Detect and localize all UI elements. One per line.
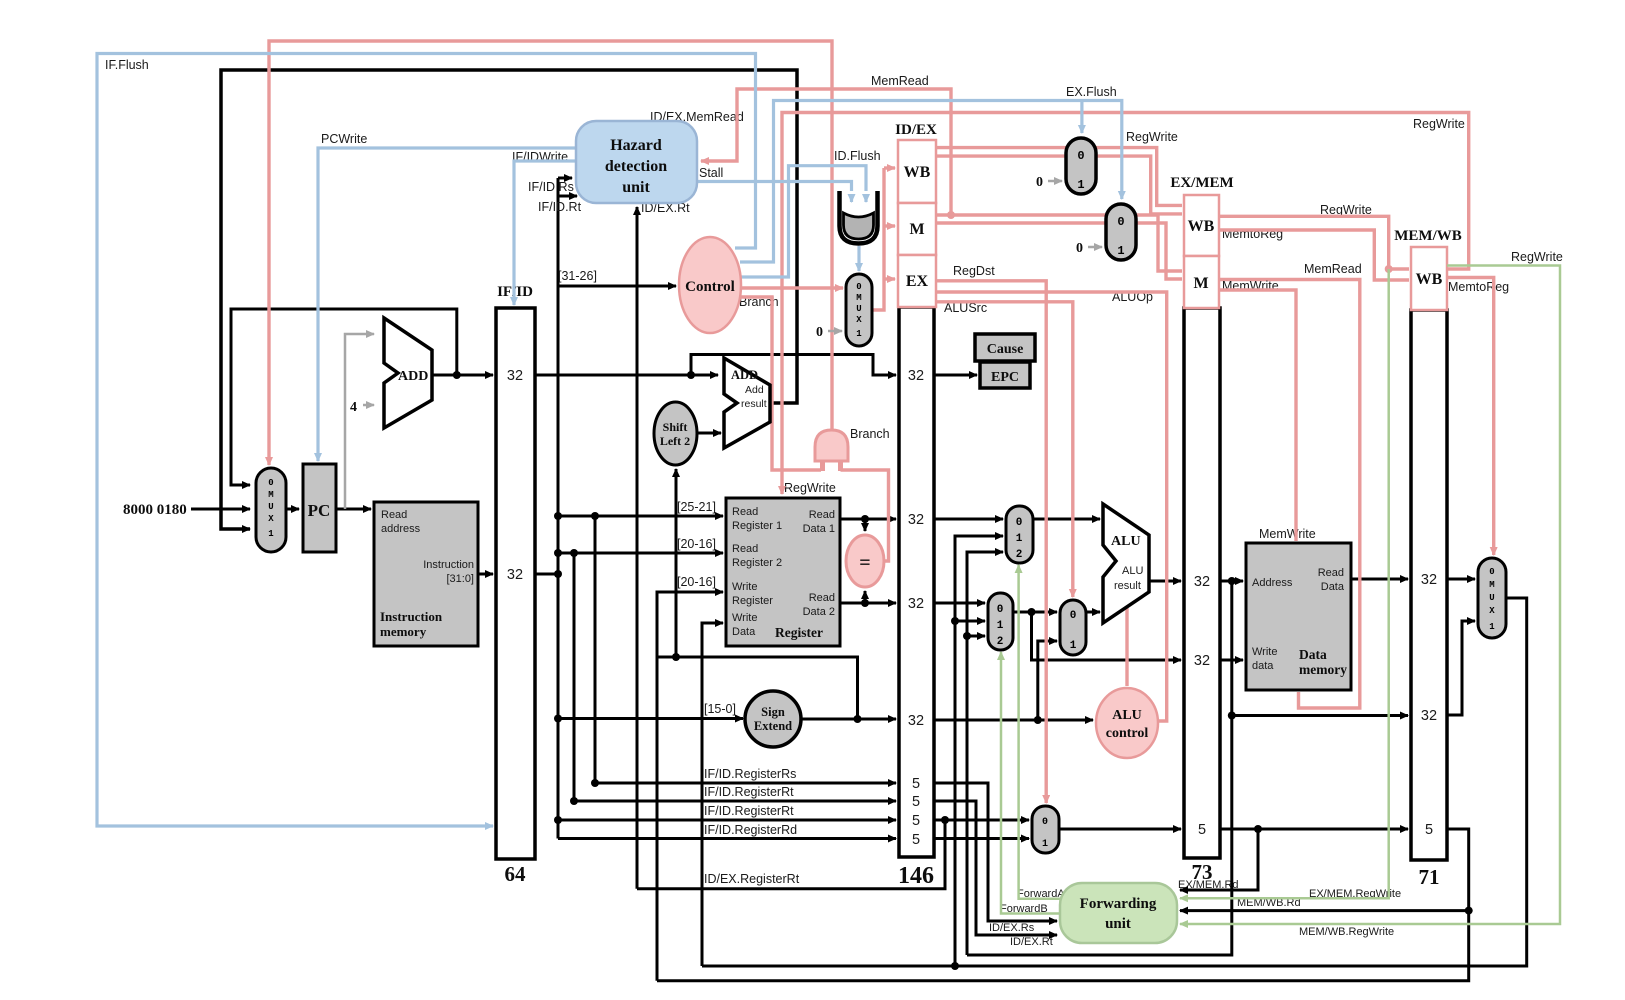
pipeline register ID/EX control boxes WB/M/EX [895, 122, 937, 307]
wire instruction [25-21] to read register 1 [558, 500, 723, 516]
wire IF/ID.Rs stub into hazard detection unit [528, 178, 574, 194]
svg-text:U: U [856, 304, 861, 314]
svg-text:32: 32 [908, 713, 924, 729]
wire ID/EX PC+4 to EPC [934, 374, 977, 377]
svg-text:Forwarding: Forwarding [1080, 896, 1157, 912]
node EX/MEM.Rd junction [1254, 825, 1262, 833]
svg-text:Shift: Shift [663, 420, 688, 434]
pipeline register IF/ID [496, 284, 535, 886]
svg-text:0: 0 [1042, 817, 1048, 828]
svg-text:Write: Write [1252, 646, 1277, 658]
wire EX/MEM ALU result to data memory address [1220, 580, 1243, 583]
svg-text:8000 0180: 8000 0180 [123, 502, 187, 518]
svg-text:0: 0 [997, 604, 1004, 616]
svg-text:0: 0 [1070, 610, 1077, 622]
ALUSrc mux 0/1 [1060, 600, 1086, 655]
svg-text:ALU: ALU [1112, 708, 1142, 723]
wire instruction [20-16] to read register 2 [558, 537, 723, 553]
svg-text:EPC: EPC [991, 370, 1019, 385]
svg-text:Data: Data [1299, 647, 1327, 662]
wire ForwardB from forwarding unit to ALU B mux (green) [1000, 652, 1060, 915]
node sign extend output junction [854, 715, 862, 723]
svg-text:1: 1 [268, 529, 274, 539]
node immediate junction [1034, 716, 1042, 724]
svg-text:5: 5 [912, 832, 920, 848]
svg-text:Read: Read [1318, 567, 1344, 579]
svg-text:memory: memory [380, 624, 427, 639]
wire MEM forward riser to ALU A mux input 2 [967, 552, 1003, 955]
cause register [975, 334, 1035, 361]
equality comparator [846, 535, 884, 587]
wire control into ID/EX EX box (pink) [884, 277, 895, 280]
hazard detection unit [576, 121, 697, 203]
svg-text:M: M [1489, 580, 1494, 590]
svg-text:64: 64 [505, 862, 527, 886]
svg-text:Register: Register [732, 595, 773, 607]
wire MEM forward row from EX/MEM ALU result [967, 581, 1232, 955]
wire instruction [15-0] to sign extend [558, 702, 743, 719]
svg-text:M: M [268, 490, 273, 500]
wire constant 4 into ADD (gray) [350, 400, 374, 415]
instruction memory [374, 502, 478, 646]
svg-text:Read: Read [809, 509, 835, 521]
svg-text:1: 1 [1070, 640, 1077, 652]
svg-text:[20-16]: [20-16] [677, 575, 716, 589]
svg-text:Instruction: Instruction [380, 609, 443, 624]
svg-text:Instruction: Instruction [423, 559, 474, 571]
svg-text:32: 32 [1421, 572, 1437, 588]
pipeline register MEM/WB (black bar) [1411, 310, 1447, 889]
svg-text:MemtoReg: MemtoReg [1448, 280, 1509, 294]
svg-text:U: U [268, 502, 273, 512]
svg-text:32: 32 [507, 567, 523, 583]
wire bubble mux output to ID/EX control boxes (pink) [872, 168, 884, 310]
svg-text:X: X [268, 514, 274, 524]
wire EX/MEM.RegWrite to forwarding unit (green) [1180, 269, 1401, 900]
wire ALUSrc to ALUSrc mux select (pink) [936, 301, 1073, 597]
svg-text:MEM/WB.RegWrite: MEM/WB.RegWrite [1299, 926, 1394, 938]
svg-text:[15-0]: [15-0] [704, 702, 736, 716]
node Rt field junction [570, 549, 578, 557]
svg-text:0: 0 [268, 478, 273, 488]
wire data memory read data to MEM/WB [1351, 578, 1408, 581]
svg-text:ID/EX.Rt: ID/EX.Rt [1010, 936, 1053, 948]
wire sign extend output into ID/EX [800, 718, 896, 721]
wire 8000 0180 constant into PC mux [123, 502, 250, 518]
svg-text:1: 1 [1016, 533, 1023, 545]
wire PCWrite from hazard detection unit to PC (blue) [318, 132, 576, 461]
wire IF.Flush from Control around to IF/ID (blue) [97, 54, 756, 827]
wire immediate riser to ALUSrc mux input 1 [1038, 641, 1057, 720]
wire WB forward tap to ALU B mux input 1 [955, 620, 985, 623]
wire IF/ID.RegisterRs into ID/EX [595, 516, 896, 783]
svg-text:data: data [1252, 660, 1274, 672]
svg-text:71: 71 [1419, 865, 1440, 889]
svg-text:Register 1: Register 1 [732, 520, 782, 532]
wire write data loop into registers [702, 623, 723, 966]
svg-text:1: 1 [856, 329, 862, 339]
node MemRead tap junction (pink) [947, 211, 955, 219]
svg-text:0: 0 [1016, 517, 1023, 529]
svg-text:MemWrite: MemWrite [1259, 527, 1316, 541]
wire PC+4 feedback to PC mux input 0 [231, 309, 457, 485]
node read data 1 junction [861, 515, 869, 523]
pipeline register ID/EX (black bar) [898, 307, 934, 889]
svg-text:Write: Write [732, 581, 757, 593]
wire EX/MEM write data to data memory [1220, 659, 1243, 662]
wire control into ID/EX M box (pink) [884, 224, 895, 227]
wire write register number loop into registers [657, 575, 723, 981]
svg-text:32: 32 [908, 596, 924, 612]
node MEM/WB.Rd junction [1465, 907, 1473, 915]
svg-text:X: X [1489, 606, 1495, 616]
svg-text:EX/MEM: EX/MEM [1170, 175, 1233, 191]
svg-text:Register: Register [775, 625, 823, 640]
wire EX/MEM.Rd down to forwarding unit [1178, 829, 1258, 891]
svg-text:IF/ID.RegisterRt: IF/ID.RegisterRt [704, 785, 794, 799]
svg-text:4: 4 [350, 400, 357, 415]
wire Control bundle to bubble mux (pink) [741, 286, 843, 289]
wire control into ID/EX WB box (pink) [884, 166, 895, 169]
svg-text:Register 2: Register 2 [732, 557, 782, 569]
svg-text:RegWrite: RegWrite [1511, 250, 1563, 264]
svg-text:ALU: ALU [1122, 565, 1143, 577]
sign extend [745, 691, 801, 747]
svg-text:RegDst: RegDst [953, 264, 995, 278]
wire ID/EX.Rt to forwarding unit [934, 801, 1057, 948]
control unit [679, 237, 741, 333]
wire MEM forward tap to ALU B mux input 2 [967, 635, 985, 638]
svg-text:Read: Read [732, 506, 758, 518]
wire IF/ID instruction output to instruction bus [535, 573, 558, 576]
node Rs field junction [591, 512, 599, 520]
svg-text:ID/EX.RegisterRt: ID/EX.RegisterRt [704, 872, 800, 886]
wire ID/EX.Rt vertical up to hazard detection unit [637, 201, 690, 889]
wire instruction memory output to IF/ID [478, 573, 493, 576]
svg-text:result: result [1114, 580, 1141, 592]
wire IF/ID.RegisterRd into ID/EX [558, 823, 896, 839]
svg-text:2: 2 [1016, 549, 1023, 561]
writeback mux [1478, 558, 1506, 638]
wire equality comparator output to AND gate (pink) [841, 470, 889, 561]
svg-text:ADD: ADD [731, 368, 758, 382]
wire read data 2 into ID/EX [840, 602, 896, 605]
svg-text:0: 0 [1036, 175, 1043, 190]
first flush mux 0/1 [1066, 138, 1096, 194]
wire Branch from Control to AND gate (pink) [739, 295, 821, 470]
svg-text:[31:0]: [31:0] [446, 573, 474, 585]
svg-text:32: 32 [507, 368, 523, 384]
svg-text:RegWrite: RegWrite [1413, 117, 1465, 131]
svg-text:unit: unit [1105, 916, 1131, 932]
wire MEM/WB.RegWrite to forwarding unit (green) [1180, 250, 1563, 938]
wire PC to instruction memory read address [336, 508, 371, 511]
node read data 2 junction [861, 599, 869, 607]
wire ID/EX WB RegWrite to EX/MEM WB (pink) [936, 148, 1182, 206]
wire writeback mux output loop to write data [702, 598, 1527, 966]
ADD branch target adder [724, 358, 770, 448]
svg-text:Control: Control [685, 279, 735, 295]
wire constant 0 into bubble mux (gray) [816, 325, 842, 340]
node ID/EX Rt output junction [941, 816, 949, 824]
svg-text:IF/ID Rs: IF/ID Rs [528, 180, 574, 194]
svg-text:1: 1 [1077, 178, 1084, 192]
svg-text:Read: Read [809, 592, 835, 604]
svg-text:0: 0 [856, 282, 861, 292]
wire shift left 2 tap from sign extend output [657, 657, 858, 719]
wire EX/MEM.Rd output to MEM/WB [1220, 828, 1408, 831]
wire read data 2 tap into equality comparator [864, 591, 867, 603]
EPC register [980, 362, 1030, 388]
wire IF/ID.RegisterRt into ID/EX [574, 553, 896, 801]
wire branch target loop from ADD result to PC mux input 2 [221, 70, 797, 529]
wire RegDst to destination mux select (pink) [936, 264, 1046, 803]
wire ID/EX M MemRead to EX/MEM M (pink) [936, 215, 1182, 271]
svg-text:ID/EX.Rs: ID/EX.Rs [989, 922, 1035, 934]
svg-text:Write: Write [732, 612, 757, 624]
svg-text:32: 32 [1421, 708, 1437, 724]
wire constant 0 into second flush mux (gray) [1076, 241, 1102, 256]
svg-text:Extend: Extend [754, 719, 792, 733]
wire MEM/WB.Rd output loop to write register [657, 829, 1469, 981]
node PC+4 bypass junction [687, 371, 695, 379]
shift left 2 [654, 402, 697, 465]
wire IF/ID 32 (PC+4) to branch ADD [535, 374, 718, 377]
wire instruction [31-26] to Control [558, 269, 676, 286]
svg-text:Address: Address [1252, 577, 1293, 589]
svg-text:Read: Read [381, 509, 407, 521]
svg-text:M: M [1193, 275, 1208, 292]
wire ID.Flush from Control to bubble funnel (blue) [738, 149, 881, 277]
svg-text:U: U [1489, 593, 1494, 603]
wire ALU control output to ALU (pink) [1125, 608, 1128, 686]
wire PC mux to PC [286, 508, 299, 511]
wire ID/EX M MemWrite to EX/MEM M (pink) [936, 223, 1182, 279]
svg-text:2: 2 [997, 636, 1004, 648]
wire IF/IDWrite from hazard detection unit to IF/ID (blue) [512, 150, 576, 305]
wire Stall from hazard detection unit to bubble funnel (blue) [697, 166, 852, 204]
wire read data 1 into ID/EX [840, 518, 896, 521]
svg-text:5: 5 [912, 813, 920, 829]
ADD PC+4 adder [384, 318, 432, 428]
svg-text:Left 2: Left 2 [660, 434, 690, 448]
wire bubble funnel output to bubble mux (blue) [857, 246, 860, 271]
svg-text:EX: EX [906, 273, 929, 290]
wire ID/EX Rt output to destination mux input 0 [934, 819, 1029, 822]
svg-text:[25-21]: [25-21] [677, 500, 716, 514]
svg-text:Cause: Cause [987, 342, 1024, 357]
wire MEM/WB read data to writeback mux input 0 [1447, 578, 1475, 581]
svg-text:1: 1 [997, 620, 1004, 632]
svg-text:32: 32 [908, 512, 924, 528]
svg-text:1: 1 [1489, 622, 1495, 632]
svg-text:Data 2: Data 2 [803, 606, 835, 618]
wire constant 0 into first flush mux (gray) [1036, 175, 1062, 190]
svg-text:Data: Data [1321, 581, 1345, 593]
svg-text:IF/ID.Rt: IF/ID.Rt [538, 200, 582, 214]
svg-text:5: 5 [1198, 822, 1206, 838]
wire ID/EX read data 1 to ALU A mux input 0 [934, 518, 1003, 521]
second flush mux 0/1 [1106, 204, 1136, 260]
svg-text:Add: Add [745, 384, 764, 396]
data memory [1246, 543, 1351, 690]
svg-text:Hazard: Hazard [610, 137, 662, 154]
wire MEM/WB.Rd into forwarding unit [1180, 897, 1469, 911]
node PC+4 junction [453, 371, 461, 379]
svg-text:Stall: Stall [699, 166, 723, 180]
ALU input A mux 0/1/2 [1006, 506, 1033, 563]
svg-text:MemRead: MemRead [1304, 262, 1362, 276]
svg-text:32: 32 [908, 368, 924, 384]
branch AND gate [815, 427, 890, 471]
wire ID/EX WB MemtoReg to EX/MEM WB (pink) [936, 156, 1182, 214]
wire MEM/WB ALU result to writeback mux input 1 [1447, 621, 1475, 715]
svg-text:detection: detection [605, 158, 667, 175]
PC register [303, 464, 336, 552]
svg-text:Sign: Sign [761, 705, 785, 719]
svg-text:ID/EX: ID/EX [895, 122, 937, 138]
svg-text:5: 5 [912, 794, 920, 810]
svg-text:M: M [909, 221, 924, 238]
node WB forward junctions [951, 962, 959, 970]
ALU input B mux 0/1/2 [988, 593, 1013, 650]
svg-text:1: 1 [1117, 244, 1124, 258]
svg-text:control: control [1106, 726, 1149, 741]
wire ID/EX.Rs to forwarding unit [934, 783, 1057, 934]
svg-text:X: X [856, 315, 862, 325]
svg-text:ID.Flush: ID.Flush [834, 149, 881, 163]
wire WB forward riser to ALU A mux input 1 [955, 536, 1003, 966]
svg-text:IF/ID.RegisterRd: IF/ID.RegisterRd [704, 823, 797, 837]
PC source mux [256, 468, 286, 552]
wire ID/EX.RegisterRt row [637, 820, 945, 889]
svg-text:WB: WB [904, 164, 931, 181]
ALU [1103, 504, 1149, 623]
wire PC+4 bypass into ID/EX [691, 355, 896, 376]
wire ID/EX immediate to ALU control [934, 719, 1093, 722]
svg-text:unit: unit [622, 179, 650, 196]
forwarding unit [1060, 883, 1177, 943]
svg-text:Data 1: Data 1 [803, 523, 835, 535]
svg-text:IF/ID.RegisterRt: IF/ID.RegisterRt [704, 804, 794, 818]
ALU control [1096, 688, 1158, 758]
svg-text:PC: PC [308, 501, 331, 520]
svg-text:result: result [741, 398, 767, 410]
svg-text:IF.Flush: IF.Flush [105, 58, 149, 72]
svg-text:memory: memory [1299, 662, 1347, 677]
pipeline register EX/MEM (black bar) [1184, 308, 1220, 884]
svg-text:=: = [859, 552, 870, 574]
wire write data value to EX/MEM [1032, 612, 1182, 660]
svg-text:32: 32 [1194, 574, 1210, 590]
registers block [726, 498, 840, 646]
svg-text:MEM/WB: MEM/WB [1394, 228, 1462, 244]
bubble mux at ID [846, 274, 872, 346]
wire IF/ID.RegisterRt second into ID/EX [558, 804, 896, 820]
pipeline register EX/MEM control boxes WB/M [1170, 175, 1233, 308]
wire ALUSrc mux output to ALU [1086, 611, 1100, 614]
svg-text:0: 0 [1077, 149, 1084, 163]
svg-text:0: 0 [1076, 241, 1083, 256]
svg-text:[20-16]: [20-16] [677, 537, 716, 551]
wire destination mux output to EX/MEM [1059, 828, 1181, 831]
wire ALU result to EX/MEM [1149, 580, 1181, 583]
wire instruction bus vertical [557, 178, 560, 839]
svg-text:Read: Read [732, 543, 758, 555]
destination register mux 0/1 [1032, 806, 1059, 853]
svg-text:RegWrite: RegWrite [1126, 130, 1178, 144]
wire ID/EX.MemRead tap to hazard detection unit (pink) [650, 74, 951, 215]
node shift left 2 tap junction [672, 653, 680, 661]
wire ALU B mux output to ALUSrc mux input 0 [1013, 611, 1057, 614]
svg-text:ADD: ADD [398, 369, 428, 384]
svg-text:address: address [381, 523, 421, 535]
wire shift left 2 output to branch ADD [697, 432, 721, 435]
wire PC value up to ADD (gray) [345, 334, 374, 509]
wire RegWrite return from MEM/WB to registers (pink) [782, 113, 1469, 496]
svg-text:ALU: ALU [1111, 534, 1141, 549]
wire MemtoReg from MEM/WB to writeback mux select (pink) [1447, 278, 1509, 556]
wire EX/MEM ALU result bypass to MEM/WB [1232, 714, 1408, 717]
wire read data 1 tap into equality comparator [864, 519, 867, 531]
svg-text:M: M [856, 293, 861, 303]
wire ID/EX Rd output to destination mux input 1 [934, 837, 1029, 840]
wire ALU A mux output to ALU [1033, 518, 1100, 521]
wire PCSrc from branch AND gate to PC mux select (pink) [269, 41, 832, 465]
svg-text:RegWrite: RegWrite [784, 481, 836, 495]
svg-text:5: 5 [1425, 822, 1433, 838]
svg-text:EX.Flush: EX.Flush [1066, 85, 1117, 99]
svg-text:0: 0 [816, 325, 823, 340]
wire EX.Flush branch into first flush mux (blue) [1080, 101, 1083, 134]
wire MemRead from EX/MEM M to data memory (pink) [1219, 262, 1362, 708]
wire ADD output PC+4 into IF/ID [432, 374, 493, 377]
svg-text:Branch: Branch [850, 427, 890, 441]
svg-text:WB: WB [1188, 218, 1215, 235]
svg-text:0: 0 [1117, 215, 1124, 229]
svg-text:[31-26]: [31-26] [558, 269, 597, 283]
svg-text:IF/ID.RegisterRs: IF/ID.RegisterRs [704, 767, 796, 781]
node EX/MEM RegWrite junction (pink) [1385, 265, 1393, 273]
wire EX/MEM MemtoReg to MEM/WB WB (pink) [1219, 227, 1409, 280]
svg-text:Data: Data [732, 626, 756, 638]
svg-text:146: 146 [898, 863, 934, 889]
bubble funnel [840, 191, 878, 244]
svg-text:PCWrite: PCWrite [321, 132, 367, 146]
svg-text:32: 32 [1194, 653, 1210, 669]
svg-text:1: 1 [1042, 839, 1048, 850]
node instruction bus junctions [554, 512, 562, 520]
wire EX.Flush from Control to flush muxes (blue) [740, 85, 1122, 262]
wire ALUOp to ALU control (pink) [936, 290, 1167, 721]
svg-text:WB: WB [1416, 271, 1443, 288]
svg-text:MemRead: MemRead [871, 74, 929, 88]
svg-text:0: 0 [1489, 567, 1494, 577]
wire IF/ID.Rt stub into hazard detection unit [538, 196, 582, 214]
wire MemWrite from EX/MEM M to data memory (pink) [1219, 279, 1316, 541]
pipeline register MEM/WB control box WB [1394, 228, 1462, 310]
wire EX/MEM RegWrite to MEM/WB WB (pink) [1219, 203, 1409, 269]
node MEM forward junctions [1228, 577, 1236, 585]
wire ForwardA from forwarding unit to ALU A mux (green) [1017, 565, 1065, 900]
node MEM forward riser junction [963, 632, 971, 640]
wire ID/EX read data 2 to ALU B mux input 0 [934, 602, 985, 605]
wire shift left 2 input vertical [675, 469, 678, 657]
node ALU B output junction [1028, 608, 1036, 616]
svg-text:5: 5 [912, 776, 920, 792]
